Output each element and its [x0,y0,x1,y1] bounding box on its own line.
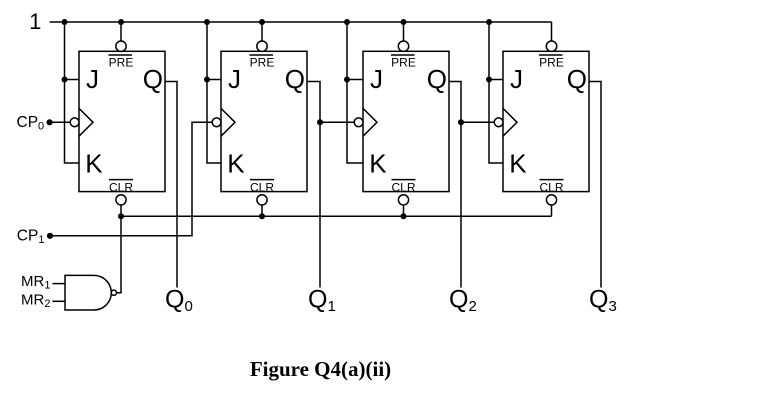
svg-text:1: 1 [29,9,41,34]
svg-text:Q: Q [285,64,305,94]
junction: FF4 J input tap [486,77,492,83]
svg-text:Figure Q4(a)(ii): Figure Q4(a)(ii) [250,357,391,381]
NAND U5 output inversion bubble [111,290,116,295]
svg-text:MR1: MR1 [21,273,50,292]
FF3 CLR inversion bubble [398,195,408,205]
junction: FF2 Q line / FF3 clock tap [317,119,323,125]
wire: rail drop to FF2 PRE [261,22,263,41]
node CP0 [47,119,53,125]
svg-text:Q: Q [143,64,163,94]
node CP1 [47,233,53,239]
FF3 body outline [363,51,449,191]
wire: FF4 CLR to clear rail [551,205,553,216]
junction: FF3 Q line / FF4 clock tap [458,119,464,125]
JK flip-flop FF4 [494,41,589,205]
wire: FF4 J input branch [489,79,503,81]
svg-text:J: J [370,64,383,94]
wire: FF2 J input branch [207,79,221,81]
svg-text:Q0: Q0 [165,285,193,315]
wire: MR1 to NAND input [52,283,65,285]
FF2 clock edge-trigger triangle [221,108,235,136]
junction: top rail / FF3 PRE drop [401,19,407,25]
wire: rail drop to FF1 PRE [120,22,122,41]
FF1 body outline [79,51,165,191]
wire: rail drop to FF3 J/K inputs [347,22,363,163]
wire: FF1 J input branch [65,79,80,81]
FF3 PRE inversion bubble [398,41,408,51]
FF1 PRE inversion bubble [116,41,126,51]
FF3 clock inversion bubble [354,118,363,127]
FF2 pin label PRE (active-low overline) [250,54,274,56]
wire: FF2 CLR to clear rail [261,205,263,216]
wire: CP0 to FF1 clock [50,121,71,123]
svg-text:CLR: CLR [539,180,563,194]
wire: FF3 J input branch [347,79,363,81]
junction: top rail / FF1 J-K drop [62,19,68,25]
wire: FF4 Q output to Q3 [589,82,601,288]
junction: FF3 J input tap [344,77,350,83]
svg-text:J: J [228,64,241,94]
wire: FF2 Q output to Q1 [307,82,320,288]
svg-text:CLR: CLR [109,180,133,194]
junction: FF1 J input tap [62,77,68,83]
wire: rail drop to FF1 J/K inputs [65,22,80,163]
wire: rail drop to FF4 PRE [551,22,553,41]
FF2 pin label CLR (active-low overline) [250,179,274,181]
wire: FF2 Q to FF3 clock [320,121,354,123]
junction: top rail / FF4 J-K drop [486,19,492,25]
svg-text:CP1: CP1 [17,227,45,246]
wire: rail drop to FF2 J/K inputs [207,22,221,163]
junction: top rail / FF2 J-K drop [204,19,210,25]
wire: NAND output to clear rail [117,216,122,292]
FF1 clock edge-trigger triangle [79,108,93,136]
svg-text:K: K [227,148,245,178]
svg-text:Q2: Q2 [449,285,477,315]
svg-text:CLR: CLR [391,180,415,194]
svg-text:J: J [86,64,99,94]
FF4 clock edge-trigger triangle [503,108,517,136]
wire: rail drop to FF4 J/K inputs [489,22,503,163]
FF1 pin label PRE (active-low overline) [109,54,133,56]
JK flip-flop FF2 [212,41,307,205]
FF4 CLR inversion bubble [546,195,556,205]
FF1 pin label CLR (active-low overline) [109,179,133,181]
svg-text:K: K [85,148,103,178]
svg-text:PRE: PRE [539,55,564,69]
FF2 CLR inversion bubble [257,195,267,205]
wire: FF1 Q output to Q0 [165,82,177,288]
FF2 PRE inversion bubble [257,41,267,51]
svg-text:Q: Q [427,64,447,94]
svg-text:MR2: MR2 [21,291,50,310]
FF4 PRE inversion bubble [546,41,556,51]
junction: top rail / FF1 PRE drop [118,19,124,25]
svg-text:Q3: Q3 [589,285,617,315]
FF3 pin label CLR (active-low overline) [392,179,416,181]
wire: FF1 CLR to clear rail [120,205,122,216]
JK flip-flop FF1 [70,41,165,205]
svg-text:K: K [509,148,527,178]
wire: rail drop to FF3 PRE [403,22,405,41]
svg-text:PRE: PRE [391,55,416,69]
JK flip-flop FF3 [354,41,449,205]
svg-text:PRE: PRE [109,55,134,69]
svg-text:CLR: CLR [250,180,274,194]
junction: top rail / FF2 PRE drop [259,19,265,25]
FF2 body outline [221,51,307,191]
FF3 clock edge-trigger triangle [363,108,377,136]
FF4 body outline [503,51,589,191]
wire: logic-1 top rail [50,21,552,23]
wire: FF3 Q output to Q2 [449,82,461,288]
svg-text:K: K [369,148,387,178]
svg-text:J: J [510,64,523,94]
FF4 pin label PRE (active-low overline) [539,54,563,56]
wire: FF3 CLR to clear rail [403,205,405,216]
FF3 pin label PRE (active-low overline) [391,54,415,56]
FF4 pin label CLR (active-low overline) [540,179,564,181]
junction: clear rail / FF1 CLR riser [118,213,124,219]
wire: master clear rail [121,215,552,217]
wire: FF3 Q to FF4 clock [461,121,494,123]
junction: clear rail / FF2 CLR riser [259,213,265,219]
FF1 clock inversion bubble [70,118,79,127]
junction: top rail / FF3 J-K drop [344,19,350,25]
svg-text:Q1: Q1 [308,285,336,315]
FF2 clock inversion bubble [212,118,221,127]
FF4 clock inversion bubble [494,118,503,127]
wire: CP1 to FF2 clock [50,122,212,236]
svg-text:CP0: CP0 [17,114,45,133]
svg-text:PRE: PRE [250,55,275,69]
NAND gate U5 (master reset) [65,275,117,310]
wire: MR2 to NAND input [52,300,65,302]
FF1 CLR inversion bubble [116,195,126,205]
NAND U5 body [65,275,111,310]
junction: FF2 J input tap [204,77,210,83]
junction: clear rail / FF3 CLR riser [401,213,407,219]
svg-text:Q: Q [567,64,587,94]
